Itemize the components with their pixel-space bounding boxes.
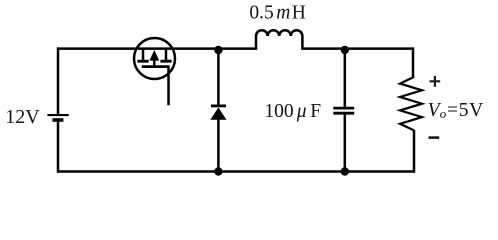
wire bottom rail (57, 170, 415, 173)
svg-text:12V: 12V (5, 106, 40, 128)
battery 12V long plate (47, 114, 68, 116)
wire diode branch lower (217, 119, 220, 171)
MOSFET gate lead (167, 65, 170, 105)
junction dot inductor/capacitor (341, 46, 349, 54)
diode triangle (anode, pointing up) (210, 107, 226, 119)
wire capacitor branch lower (344, 113, 347, 171)
battery 12V short plate (52, 118, 63, 122)
wire left vertical lower (57, 122, 60, 172)
MOSFET right contact bar (160, 60, 171, 63)
wire right vertical lower (413, 130, 416, 171)
MOSFET arrow (up) (149, 50, 159, 61)
svg-text:100: 100 (264, 101, 293, 122)
label minus sign (429, 136, 440, 139)
label plus sign (430, 76, 441, 87)
inductor L 0.5mH coil (256, 30, 302, 50)
node junction dot (switch/diode/inductor) (214, 46, 222, 54)
svg-text:0.5: 0.5 (249, 3, 273, 24)
wire right vertical upper (412, 47, 415, 77)
svg-text:m: m (276, 3, 290, 24)
MOSFET switch body circle (134, 38, 175, 79)
wire diode branch upper (217, 50, 220, 105)
svg-text:F: F (310, 101, 321, 122)
wire top rail right segment (302, 47, 414, 50)
junction dot diode bottom (214, 167, 222, 175)
svg-text:=5V: =5V (447, 100, 484, 121)
MOSFET gate bar (142, 65, 169, 68)
MOSFET left contact bar (137, 60, 148, 63)
svg-text:o: o (440, 106, 447, 121)
capacitor top plate (333, 107, 354, 110)
wire top rail left segment (58, 47, 256, 50)
MOSFET arrow stem (153, 60, 156, 65)
resistor R load zigzag (400, 77, 422, 130)
MOSFET right contact leg (165, 49, 168, 60)
junction dot capacitor bottom (341, 167, 349, 175)
svg-text:H: H (292, 3, 306, 24)
wire left vertical upper (57, 47, 60, 114)
capacitor bottom plate (333, 112, 354, 115)
MOSFET left contact leg (142, 49, 145, 60)
wire capacitor branch upper (344, 50, 347, 107)
svg-text:μ: μ (296, 101, 307, 122)
diode cathode bar (211, 105, 226, 108)
